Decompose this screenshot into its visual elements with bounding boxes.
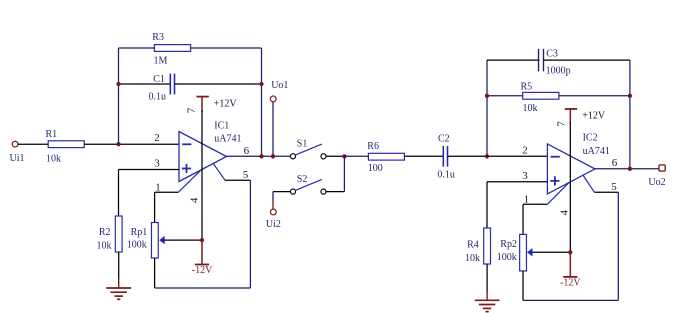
svg-text:Rp2: Rp2 <box>500 239 517 250</box>
svg-text:R5: R5 <box>521 81 533 92</box>
svg-text:100k: 100k <box>127 240 147 251</box>
svg-text:Uo1: Uo1 <box>271 80 288 91</box>
svg-text:S2: S2 <box>297 174 308 185</box>
svg-text:+12V: +12V <box>582 111 606 122</box>
svg-text:3: 3 <box>522 170 528 182</box>
svg-text:S1: S1 <box>297 138 308 149</box>
svg-text:+12V: +12V <box>214 98 238 109</box>
svg-text:7: 7 <box>555 121 567 127</box>
svg-text:4: 4 <box>189 197 201 203</box>
svg-text:Ui1: Ui1 <box>10 153 25 164</box>
svg-text:-12V: -12V <box>560 277 581 288</box>
svg-text:uA741: uA741 <box>214 134 241 145</box>
svg-text:10k: 10k <box>465 253 480 264</box>
svg-text:1M: 1M <box>154 55 168 66</box>
svg-text:2: 2 <box>522 144 528 156</box>
svg-text:1: 1 <box>524 193 530 205</box>
svg-text:100k: 100k <box>497 252 517 263</box>
svg-text:C3: C3 <box>546 48 558 59</box>
svg-text:4: 4 <box>559 210 571 216</box>
svg-text:1: 1 <box>155 181 161 193</box>
svg-text:3: 3 <box>154 158 160 170</box>
svg-text:0.1u: 0.1u <box>149 92 167 103</box>
svg-text:C2: C2 <box>438 133 450 144</box>
svg-text:1000p: 1000p <box>546 66 571 77</box>
svg-text:R6: R6 <box>367 141 379 152</box>
svg-text:R2: R2 <box>99 227 111 238</box>
svg-text:Rp1: Rp1 <box>131 227 148 238</box>
svg-text:Ui2: Ui2 <box>266 219 281 230</box>
svg-text:IC2: IC2 <box>583 133 598 144</box>
svg-text:10k: 10k <box>97 241 112 252</box>
svg-text:Uo2: Uo2 <box>648 177 665 188</box>
svg-text:2: 2 <box>154 132 160 144</box>
svg-text:10k: 10k <box>46 153 61 164</box>
svg-text:IC1: IC1 <box>214 120 229 131</box>
svg-text:-12V: -12V <box>192 265 213 276</box>
svg-text:7: 7 <box>186 107 198 113</box>
svg-text:R4: R4 <box>467 240 479 251</box>
svg-text:R1: R1 <box>46 129 58 140</box>
svg-text:R3: R3 <box>152 32 164 43</box>
svg-text:6: 6 <box>244 145 250 157</box>
svg-text:6: 6 <box>612 157 618 169</box>
svg-text:100: 100 <box>368 163 383 174</box>
svg-text:0.1u: 0.1u <box>437 169 455 180</box>
svg-text:uA741: uA741 <box>583 146 610 157</box>
svg-text:5: 5 <box>611 181 617 193</box>
svg-text:10k: 10k <box>523 103 538 114</box>
svg-text:5: 5 <box>243 169 249 181</box>
svg-text:C1: C1 <box>153 74 165 85</box>
